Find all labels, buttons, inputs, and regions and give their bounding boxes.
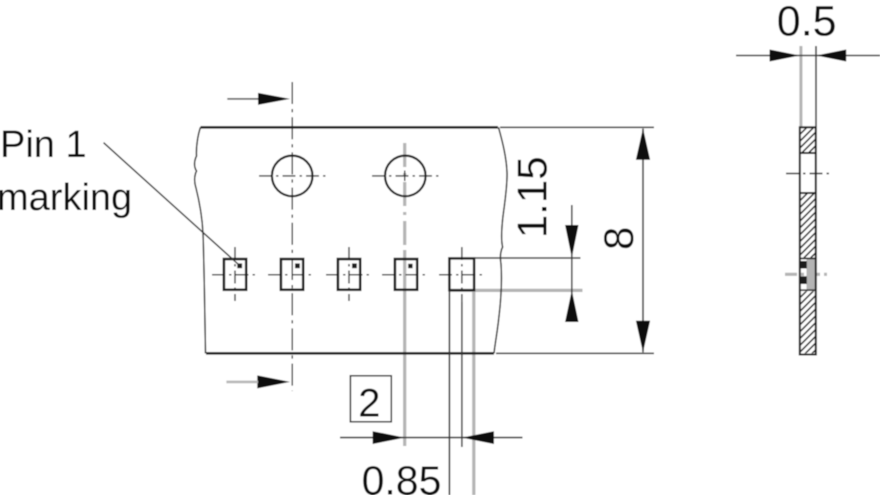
svg-text:0.85: 0.85	[362, 458, 442, 495]
svg-text:Pin 1: Pin 1	[0, 124, 87, 166]
svg-text:2: 2	[358, 382, 380, 426]
svg-text:1.15: 1.15	[509, 156, 556, 238]
svg-text:0.5: 0.5	[777, 0, 837, 45]
svg-text:8: 8	[595, 227, 642, 250]
svg-text:marking: marking	[0, 177, 132, 219]
